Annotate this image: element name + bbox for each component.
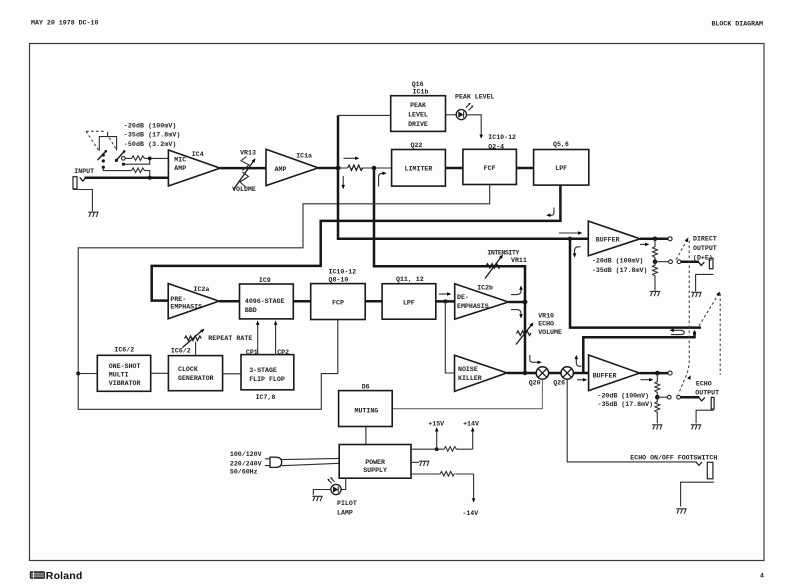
- svg-text:DE-: DE-: [457, 294, 469, 301]
- svg-text:ONE-SHOT: ONE-SHOT: [109, 363, 141, 370]
- svg-text:D6: D6: [362, 383, 370, 390]
- svg-text:BUFFER: BUFFER: [593, 372, 617, 379]
- svg-text:IC6/2: IC6/2: [114, 347, 134, 354]
- wire row A to MIC AMP: [145, 157, 169, 159]
- wire FCP to LPF2: [365, 300, 382, 303]
- flow arrow into echo buffer: [577, 378, 587, 382]
- dashed linkage diagonal to vertical right: [699, 291, 721, 326]
- svg-text:IC7,8: IC7,8: [256, 394, 276, 401]
- wire PS -14V rail: [411, 473, 440, 475]
- curved flow arrow into Q20: [530, 355, 542, 364]
- svg-text:VOLUME: VOLUME: [232, 186, 256, 193]
- resistor divider buffer2 lower: [655, 397, 660, 423]
- wire input jack sleeve to ground: [73, 190, 92, 212]
- Roland logo mark: [30, 571, 45, 579]
- junction dot echo volume bottom: [523, 371, 527, 375]
- wire node A up-feed to PEAK LEVEL DRIVE: [337, 115, 340, 166]
- ground echo jack: [691, 425, 701, 430]
- svg-text:220/240V: 220/240V: [230, 460, 262, 467]
- resistor R-A: [132, 156, 145, 161]
- svg-text:-35dB (17.8mV): -35dB (17.8mV): [598, 401, 654, 408]
- svg-text:VOLUME: VOLUME: [538, 329, 562, 336]
- svg-text:IC2b: IC2b: [477, 284, 493, 291]
- wire row B link: [124, 158, 150, 164]
- svg-text:3-STAGE: 3-STAGE: [249, 367, 277, 374]
- svg-text:INTENSITY: INTENSITY: [487, 250, 519, 257]
- modulator Q20: [536, 367, 548, 379]
- wire BBD to FCP: [293, 300, 310, 303]
- svg-text:MULTI: MULTI: [109, 371, 129, 378]
- svg-text:CLOCK: CLOCK: [178, 366, 198, 373]
- svg-text:(D+E): (D+E): [693, 254, 713, 261]
- svg-text:IC10-12: IC10-12: [329, 269, 357, 276]
- svg-text:VR10: VR10: [538, 312, 554, 319]
- flow arrow after buffer2: [641, 378, 654, 382]
- svg-text:KILLER: KILLER: [458, 375, 482, 382]
- wire AMP output to LIMITER: [318, 167, 339, 170]
- svg-text:-50dB (3.2mV): -50dB (3.2mV): [124, 141, 177, 148]
- block PEAK LEVEL DRIVE Q16 IC1b: [391, 96, 446, 132]
- terminal circle buffer1: [668, 237, 672, 241]
- dashed linkage echo jack switch arrowhead: [687, 374, 692, 379]
- switch circles direct output: [669, 260, 673, 264]
- junction dot echo node: [523, 300, 528, 305]
- svg-text:EMPHASIS: EMPHASIS: [170, 304, 202, 311]
- wire Q26 to echo buffer: [573, 372, 588, 375]
- block FCP IC10-12 Q8-10: [311, 284, 366, 320]
- svg-text:IC1b: IC1b: [413, 89, 429, 96]
- wire FCF to LPF: [516, 167, 533, 170]
- ground input jack: [88, 212, 98, 217]
- svg-text:-14V: -14V: [462, 510, 478, 517]
- jack ECHO OUTPUT: [711, 397, 714, 409]
- svg-text:+14V: +14V: [463, 420, 479, 427]
- return flow arrow near LPF corner: [546, 208, 554, 218]
- input jack J1: [73, 177, 86, 189]
- svg-text:CP1: CP1: [246, 349, 258, 356]
- junction dot direct bypass: [568, 237, 572, 241]
- svg-text:VR11: VR11: [511, 257, 527, 264]
- op-amp BUFFER direct: [588, 221, 640, 256]
- svg-text:Q8-10: Q8-10: [329, 277, 349, 284]
- wire PS ground stub: [411, 461, 419, 463]
- LED pilot lamp: [327, 477, 341, 495]
- resistor R main line: [348, 165, 363, 170]
- svg-text:OUTPUT: OUTPUT: [695, 390, 719, 397]
- arrow +14V: [471, 427, 475, 449]
- switch S1b lever: [116, 152, 124, 161]
- svg-text:INPUT: INPUT: [74, 168, 94, 175]
- wire noise killer input: [445, 301, 454, 373]
- svg-text:LPF: LPF: [555, 165, 567, 172]
- wire echo jack sleeve: [696, 410, 714, 423]
- svg-text:GENERATOR: GENERATOR: [178, 375, 214, 382]
- block LPF Q11,12: [382, 284, 436, 320]
- potentiometer VR11 INTENSITY: [485, 253, 504, 278]
- svg-text:LAMP: LAMP: [337, 509, 353, 516]
- wire buffer2 output: [640, 372, 668, 375]
- dashed linkage direct jack switch: [676, 237, 690, 260]
- wire direct jack sleeve: [696, 274, 714, 291]
- svg-text:Q26: Q26: [553, 379, 565, 386]
- wire FCP bottom to one-shot loop: [78, 320, 338, 410]
- svg-text:IC1a: IC1a: [296, 152, 312, 159]
- wire Q20 to Q26: [549, 372, 561, 375]
- svg-text:LIMITER: LIMITER: [405, 165, 433, 172]
- switch gang bracket: [99, 132, 116, 151]
- svg-text:Roland: Roland: [46, 570, 83, 582]
- potentiometer VR10 ECHO VOLUME: [516, 321, 535, 344]
- resistor -14V: [440, 471, 454, 476]
- wire PS +15V +14V rail: [411, 448, 444, 450]
- block ONE-SHOT MULTI VIBRATOR IC6/2: [97, 355, 150, 391]
- wire CP2 clock line: [274, 321, 278, 355]
- block 4096-STAGE BBD IC9: [240, 284, 294, 319]
- junction node A dot: [336, 166, 341, 171]
- svg-text:MIC: MIC: [174, 157, 186, 164]
- wire LED output down arrow: [466, 115, 483, 139]
- svg-text:+15V: +15V: [428, 420, 444, 427]
- svg-text:OUTPUT: OUTPUT: [693, 245, 717, 252]
- block POWER SUPPLY: [339, 445, 411, 479]
- ground power supply: [419, 461, 429, 466]
- block CLOCK GENERATOR: [168, 356, 222, 391]
- wire feedback from node B through VR11 to echo junction: [374, 168, 525, 373]
- svg-text:IC4: IC4: [192, 151, 204, 158]
- wire main input line: [85, 176, 169, 179]
- svg-text:MAY 20 1978 DC-10: MAY 20 1978 DC-10: [31, 19, 99, 26]
- switch contact dots: [102, 150, 126, 169]
- junction node B dot: [372, 166, 377, 171]
- block 3-STAGE FLIP FLOP IC7,8: [241, 355, 294, 390]
- wire pilot lamp to ground: [313, 490, 331, 496]
- resistor divider buffer2 upper: [655, 373, 660, 397]
- arrow -14V down: [472, 474, 476, 503]
- svg-text:Q2-4: Q2-4: [488, 143, 504, 150]
- svg-text:Q11, 12: Q11, 12: [396, 276, 424, 283]
- flow arrowhead down on direct feed: [341, 176, 345, 189]
- svg-text:100/120V: 100/120V: [230, 451, 262, 458]
- svg-text:PRE-: PRE-: [170, 296, 186, 303]
- svg-text:BBD: BBD: [245, 307, 257, 314]
- feedback FCF bottom to one-shot: [78, 185, 490, 374]
- op-amp BUFFER echo: [589, 355, 640, 391]
- svg-text:CP2: CP2: [277, 349, 289, 356]
- svg-text:-20dB (100mV): -20dB (100mV): [598, 392, 650, 399]
- svg-text:Q5,6: Q5,6: [553, 141, 569, 148]
- ground direct divider: [650, 291, 660, 296]
- flow arrow above buffer1 input: [559, 231, 582, 235]
- svg-text:REPEAT RATE: REPEAT RATE: [208, 335, 252, 342]
- svg-text:LEVEL: LEVEL: [408, 112, 428, 119]
- op-amp NOISE KILLER: [455, 355, 507, 391]
- ground direct jack: [691, 292, 701, 297]
- svg-text:PILOT: PILOT: [337, 500, 357, 507]
- svg-text:ECHO: ECHO: [538, 320, 554, 327]
- svg-text:50/60Hz: 50/60Hz: [230, 469, 258, 476]
- switch circles echo output: [667, 395, 671, 399]
- resistor R-C: [132, 168, 145, 173]
- svg-text:PEAK LEVEL: PEAK LEVEL: [455, 94, 495, 101]
- svg-text:Q16: Q16: [412, 81, 424, 88]
- svg-text:NOISE: NOISE: [458, 366, 478, 373]
- wire buffer1 output: [640, 238, 668, 241]
- wire LIMITER to FCF: [445, 167, 463, 170]
- wire CP1 clock line: [256, 321, 260, 355]
- flow arrow after buffer1: [640, 243, 649, 247]
- wire LPF down and around to PRE-EMPHASIS: [152, 185, 561, 301]
- svg-text:-20dB (100mV): -20dB (100mV): [592, 258, 644, 265]
- svg-text:VIBRATOR: VIBRATOR: [109, 380, 141, 387]
- terminal circle buffer2: [668, 371, 672, 375]
- wire PLD to LED: [446, 114, 457, 116]
- svg-text:MUTING: MUTING: [355, 408, 379, 415]
- svg-text:Q20: Q20: [529, 379, 541, 386]
- curved flow arrow into LIMITER: [379, 171, 387, 186]
- svg-text:Q22: Q22: [411, 142, 423, 149]
- svg-text:-35dB (17.8mV): -35dB (17.8mV): [124, 132, 181, 139]
- curved flow arrow down from echo node: [511, 310, 523, 319]
- potentiometer VR13: [234, 157, 257, 190]
- flow arrow into DE-EMPHASIS: [439, 292, 451, 296]
- wire direct tap to switch: [655, 261, 669, 263]
- svg-text:VR13: VR13: [240, 149, 256, 156]
- arrow +15V: [435, 427, 439, 449]
- wire PS to pilot lamp: [341, 478, 346, 489]
- junction dot buffer2 output: [655, 371, 660, 376]
- resistor divider buffer1 upper: [653, 239, 658, 262]
- wire echo tap to switch: [657, 396, 667, 398]
- svg-text:IC2a: IC2a: [194, 286, 210, 293]
- svg-text:AMP: AMP: [275, 166, 287, 173]
- wire AC plug to power supply: [282, 458, 340, 465]
- op-amp PRE-EMPHASIS IC2a: [168, 284, 219, 319]
- block LIMITER Q22: [392, 150, 446, 187]
- jack ECHO ON/OFF FOOTSWITCH: [707, 462, 713, 479]
- wire CLOCK GENERATOR to FLIP FLOP: [223, 373, 241, 375]
- junction dot +15V: [435, 447, 439, 451]
- wire Q20 to muting line: [392, 379, 542, 409]
- input attenuator switch dashed linkage: [86, 131, 117, 151]
- svg-text:IC10-12: IC10-12: [488, 134, 516, 141]
- curved flow arrow up from echo node: [511, 286, 523, 295]
- svg-text:BUFFER: BUFFER: [596, 236, 620, 243]
- jack DIRECT OUTPUT: [709, 258, 713, 269]
- resistor divider buffer1 lower: [653, 262, 658, 291]
- curved flow arrow down bypass: [573, 247, 581, 258]
- svg-text:FLIP FLOP: FLIP FLOP: [249, 376, 285, 383]
- wire direct feed node A to buffer1: [338, 168, 588, 239]
- wire LPF2 to DE-EMPHASIS: [436, 300, 455, 303]
- block LPF Q5,6: [534, 150, 589, 186]
- svg-text:4: 4: [760, 573, 764, 580]
- svg-text:EMPHASIS: EMPHASIS: [457, 303, 489, 310]
- potentiometer REPEAT RATE: [183, 327, 206, 355]
- switch contact circle: [122, 157, 126, 161]
- ground footswitch jack: [676, 509, 686, 514]
- junction dot noise killer tap: [443, 299, 447, 303]
- junction dot echo tap: [655, 395, 660, 400]
- block FCF IC10-12 Q2-4: [463, 149, 517, 184]
- svg-text:DIRECT: DIRECT: [693, 235, 717, 242]
- dashed linkage vertical left: [679, 241, 690, 394]
- LED peak level indicator: [456, 103, 473, 120]
- junction dot on main line: [148, 176, 152, 180]
- svg-text:DRIVE: DRIVE: [408, 121, 428, 128]
- wire ONE-SHOT to CLOCK GENERATOR: [151, 372, 169, 374]
- svg-text:4096-STAGE: 4096-STAGE: [245, 298, 285, 305]
- flow arrow above resistor: [344, 157, 360, 161]
- AC plug: [265, 457, 282, 467]
- svg-text:BLOCK DIAGRAM: BLOCK DIAGRAM: [712, 21, 764, 28]
- wire MIC AMP to AMP: [220, 167, 266, 170]
- ground pilot lamp: [312, 496, 322, 501]
- u-turn flow arrow bypass: [670, 329, 685, 335]
- op-amp AMP IC1a: [266, 149, 318, 185]
- junction dot buffer1 output: [653, 237, 658, 242]
- svg-text:PEAK: PEAK: [410, 102, 426, 109]
- curved flow arrow bypass join: [575, 355, 582, 366]
- svg-text:-20dB (100mV): -20dB (100mV): [124, 122, 177, 129]
- block MUTING D6: [339, 391, 393, 427]
- svg-text:POWER: POWER: [365, 459, 385, 466]
- wire bypass return to echo buffer: [583, 332, 694, 374]
- svg-text:ECHO: ECHO: [696, 381, 712, 388]
- wire direct tap to jack: [681, 260, 699, 263]
- wire footswitch jack sleeve: [681, 482, 714, 506]
- wire MUTING to POWER SUPPLY: [365, 427, 367, 445]
- wire NOISE KILLER output to echo bus: [507, 372, 537, 375]
- wire row C stub: [103, 167, 131, 170]
- ground echo divider: [652, 425, 662, 430]
- arrowhead bypass return up: [693, 330, 697, 334]
- svg-text:ECHO ON/OFF FOOTSWITCH: ECHO ON/OFF FOOTSWITCH: [630, 454, 717, 461]
- svg-text:IC9: IC9: [259, 277, 271, 284]
- svg-text:FCF: FCF: [484, 165, 496, 172]
- wire direct bypass down and right: [570, 239, 701, 328]
- wire switch row A: [125, 157, 131, 159]
- svg-text:AMP: AMP: [174, 165, 186, 172]
- junction dot one-shot input: [76, 372, 80, 376]
- junction dot row A: [148, 157, 152, 161]
- wire DE-EMPHASIS output to junction: [508, 301, 525, 304]
- op-amp MIC AMP IC4: [168, 150, 220, 186]
- svg-text:FCP: FCP: [332, 300, 344, 307]
- switch S1a lever: [98, 151, 106, 160]
- dashed linkage vertical right: [719, 294, 721, 376]
- junction dot direct tap: [653, 259, 658, 264]
- svg-text:SUPPLY: SUPPLY: [363, 467, 387, 474]
- svg-text:IC6/2: IC6/2: [171, 348, 191, 355]
- wire echo tap to jack: [681, 396, 700, 399]
- svg-text:LPF: LPF: [403, 300, 415, 307]
- wire PRE-EMPHASIS to BBD: [219, 300, 240, 303]
- svg-text:-35dB (17.8mV): -35dB (17.8mV): [592, 267, 648, 274]
- resistor +14V: [444, 447, 456, 452]
- modulator Q26: [561, 367, 573, 379]
- wire dot to ONE-SHOT: [78, 373, 97, 375]
- wire row C to main line: [145, 171, 150, 178]
- op-amp DE-EMPHASIS IC2b: [455, 284, 509, 319]
- wire Q26 to footswitch jack: [567, 379, 697, 462]
